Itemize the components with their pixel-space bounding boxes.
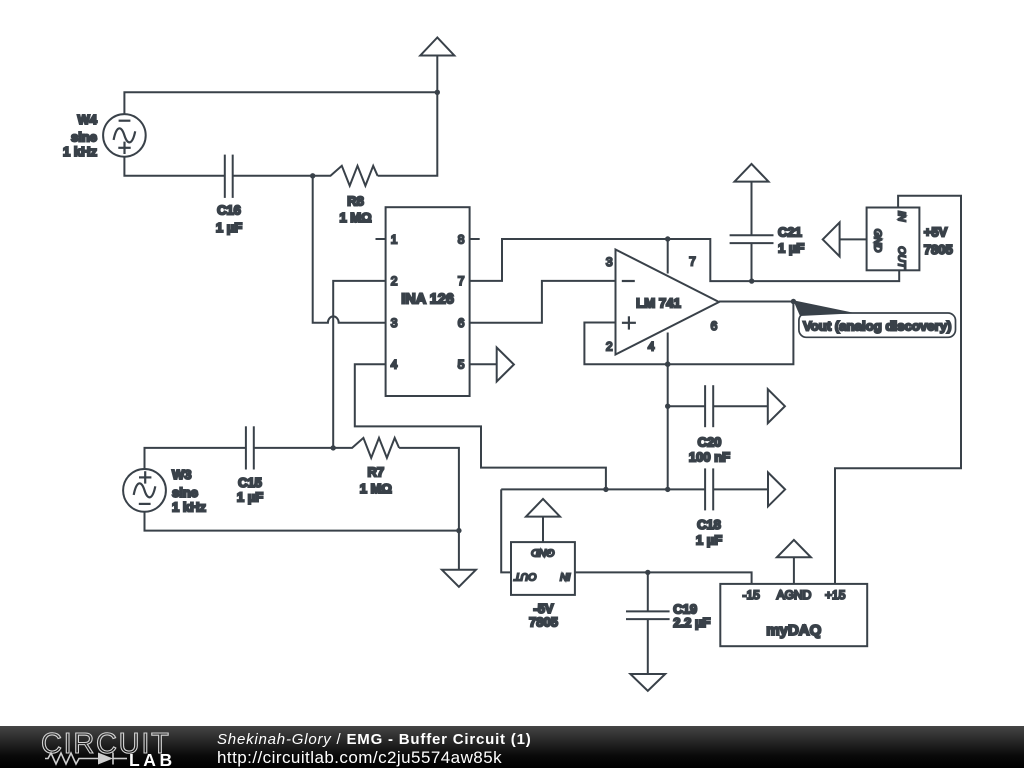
svg-text:1 kHz: 1 kHz xyxy=(63,144,97,159)
node junction pin7 rail xyxy=(665,236,670,241)
wire LM741 pin 4 down xyxy=(667,333,669,365)
svg-text:1 MΩ: 1 MΩ xyxy=(339,210,371,225)
node junction output xyxy=(791,299,796,304)
wire W3 top to C15 xyxy=(145,448,246,469)
CircuitLab logo word xyxy=(41,728,171,761)
svg-text:INA 126: INA 126 xyxy=(401,292,454,308)
R8 value label xyxy=(339,194,371,226)
voltage source W4 xyxy=(103,114,146,157)
svg-text:7: 7 xyxy=(689,254,696,268)
svg-text:1 µF: 1 µF xyxy=(216,220,242,235)
C15 value label xyxy=(237,475,263,505)
node junction at VCC rail xyxy=(435,90,440,95)
node junction C15/R7 xyxy=(331,445,336,450)
capacitor C16 xyxy=(225,155,233,198)
-5V 7805 value label xyxy=(529,601,558,630)
wire INA pin 5 stub xyxy=(470,363,497,365)
wire -5V OUT up to rail xyxy=(501,489,511,572)
voltage regulator +5V 7805 body xyxy=(867,208,920,271)
svg-text:7805: 7805 xyxy=(924,242,953,257)
svg-text:2: 2 xyxy=(391,274,398,288)
svg-text:sine: sine xyxy=(172,485,198,500)
svg-text:R8: R8 xyxy=(347,194,364,209)
svg-text:IN: IN xyxy=(560,571,571,583)
svg-text:1 µF: 1 µF xyxy=(696,533,722,548)
LAB logo word xyxy=(129,750,176,768)
node junction C19 top xyxy=(645,570,650,575)
resistor R7 xyxy=(333,438,399,458)
svg-text:7805: 7805 xyxy=(529,615,558,630)
wire -5V OUT rail to C18 xyxy=(501,488,705,490)
svg-text:+15: +15 xyxy=(825,588,846,602)
node junction C21 bottom xyxy=(749,278,754,283)
power flag above -5V 7805 xyxy=(526,499,560,517)
svg-text:1: 1 xyxy=(391,232,398,246)
svg-text:7: 7 xyxy=(458,274,465,288)
svg-text:6: 6 xyxy=(711,319,718,333)
node junction C16/R8 xyxy=(310,173,315,178)
wire R8 right lead up to VCC node xyxy=(378,92,438,176)
wire LM741 output xyxy=(719,301,793,303)
svg-text:GND: GND xyxy=(872,229,884,253)
op-amp U1 INA 126 body xyxy=(386,207,470,396)
svg-text:sine: sine xyxy=(71,130,97,145)
svg-text:6: 6 xyxy=(458,316,465,330)
wire R7 right to ground node xyxy=(399,448,459,531)
output flag at C20 xyxy=(768,389,785,423)
svg-text:Vout (analog discovery): Vout (analog discovery) xyxy=(803,318,952,333)
+5V 7805 value label xyxy=(924,224,953,256)
svg-text:1 kHz: 1 kHz xyxy=(172,500,206,515)
wire myDAQ AGND stub xyxy=(793,557,795,584)
banner title line xyxy=(217,731,532,748)
svg-text:LM 741: LM 741 xyxy=(636,296,681,311)
wire 7805 IN to +15 rail xyxy=(835,196,961,584)
svg-text:3: 3 xyxy=(606,255,613,269)
svg-text:4: 4 xyxy=(648,339,655,353)
svg-text:W3: W3 xyxy=(172,467,192,482)
svg-text:-15: -15 xyxy=(743,588,761,602)
W4 value label xyxy=(63,112,98,159)
svg-text:C21: C21 xyxy=(778,224,802,239)
wire feedback loop plus input xyxy=(584,302,793,365)
C18 value label xyxy=(696,517,722,548)
capacitor C19 xyxy=(626,572,670,674)
power flag above C21 xyxy=(735,164,769,182)
wire W3 bottom to ground node xyxy=(145,512,459,531)
wire -5V IN to myDAQ -15 xyxy=(575,572,752,584)
C19 value label xyxy=(673,601,710,630)
node label Vout callout xyxy=(799,313,956,337)
pin 1 tick xyxy=(376,238,386,240)
svg-text:OUT: OUT xyxy=(896,246,908,270)
svg-text:2.2 µF: 2.2 µF xyxy=(673,615,710,630)
voltage regulator -5V 7805 body xyxy=(511,542,575,595)
svg-text:C16: C16 xyxy=(217,203,241,218)
wire main rail pin4 node to C18 node xyxy=(667,364,669,489)
resistor R8 xyxy=(313,166,378,186)
svg-text:3: 3 xyxy=(391,316,398,330)
input flag at 7805 GND xyxy=(823,222,840,256)
svg-text:2: 2 xyxy=(606,339,613,353)
svg-text:R7: R7 xyxy=(367,465,384,480)
svg-text:1 µF: 1 µF xyxy=(778,241,804,256)
C20 value label xyxy=(689,434,730,464)
wire -5V GND stub xyxy=(542,517,544,543)
wire INA pin 7 to 7805 OUT xyxy=(470,239,900,281)
banner bar xyxy=(0,726,1024,768)
CircuitLab logo resistor-diode glyph xyxy=(45,751,135,767)
svg-text:W4: W4 xyxy=(78,112,98,127)
svg-text:AGND: AGND xyxy=(777,588,812,602)
svg-text:8: 8 xyxy=(458,232,465,246)
svg-text:+5V: +5V xyxy=(924,224,948,239)
myDAQ body xyxy=(720,584,867,646)
C16 value label xyxy=(216,203,242,235)
svg-text:myDAQ: myDAQ xyxy=(766,622,821,639)
power flag VCC top xyxy=(420,38,454,93)
LM741 plus input mark xyxy=(622,316,636,329)
capacitor C21 xyxy=(730,182,774,282)
svg-text:GND: GND xyxy=(531,546,555,558)
wire node down to INA pin 3 with hop xyxy=(313,176,386,323)
node junction W3 ground xyxy=(456,528,461,533)
wire 7805 GND to flag xyxy=(840,238,867,240)
banner url line xyxy=(217,748,502,768)
svg-text:IN: IN xyxy=(896,211,908,222)
wire C16 to node xyxy=(233,175,313,177)
ground symbol C19 xyxy=(630,674,665,691)
svg-text:5: 5 xyxy=(458,358,465,372)
node junction C20 left xyxy=(665,404,670,409)
svg-text:100 nF: 100 nF xyxy=(689,449,730,464)
wire W4 bottom to C16 xyxy=(124,157,224,176)
svg-text:C18: C18 xyxy=(697,517,721,532)
svg-text:1 MΩ: 1 MΩ xyxy=(360,481,392,496)
output flag at INA pin 5 xyxy=(497,348,514,382)
node junction main rail joins C18 xyxy=(665,487,670,492)
svg-text:OUT: OUT xyxy=(513,571,537,583)
svg-text:1 µF: 1 µF xyxy=(237,490,263,505)
capacitor C20 xyxy=(668,385,768,427)
capacitor C15 xyxy=(246,426,333,469)
LM741 minus input mark xyxy=(622,280,635,282)
W3 value label xyxy=(172,467,206,515)
wire INA pin 4 run to C18 rail xyxy=(355,364,606,489)
node junction pin4 run joins rail xyxy=(603,487,608,492)
wire INA pin 2 down to R7 node xyxy=(333,281,385,448)
label tail Vout pointer xyxy=(793,300,856,316)
op-amp U2 LM 741 body xyxy=(616,250,720,355)
voltage source W3 xyxy=(123,469,166,512)
wire W4 top to VCC rail xyxy=(124,92,437,114)
R7 value label xyxy=(360,465,392,497)
wire INA pin 6 to LM741 minus input xyxy=(470,281,616,323)
node junction feedback/pin4 xyxy=(665,361,671,367)
C21 value label xyxy=(778,224,804,255)
output flag at C18 xyxy=(768,472,785,506)
svg-text:4: 4 xyxy=(391,358,398,372)
svg-text:C20: C20 xyxy=(698,434,722,449)
pin 8 tick xyxy=(470,238,480,240)
svg-text:C15: C15 xyxy=(238,475,262,490)
capacitor C18 xyxy=(705,468,768,510)
power flag above myDAQ AGND xyxy=(777,540,811,557)
wire LM741 pin 7 supply xyxy=(667,239,669,274)
ground symbol W3 xyxy=(442,531,476,587)
